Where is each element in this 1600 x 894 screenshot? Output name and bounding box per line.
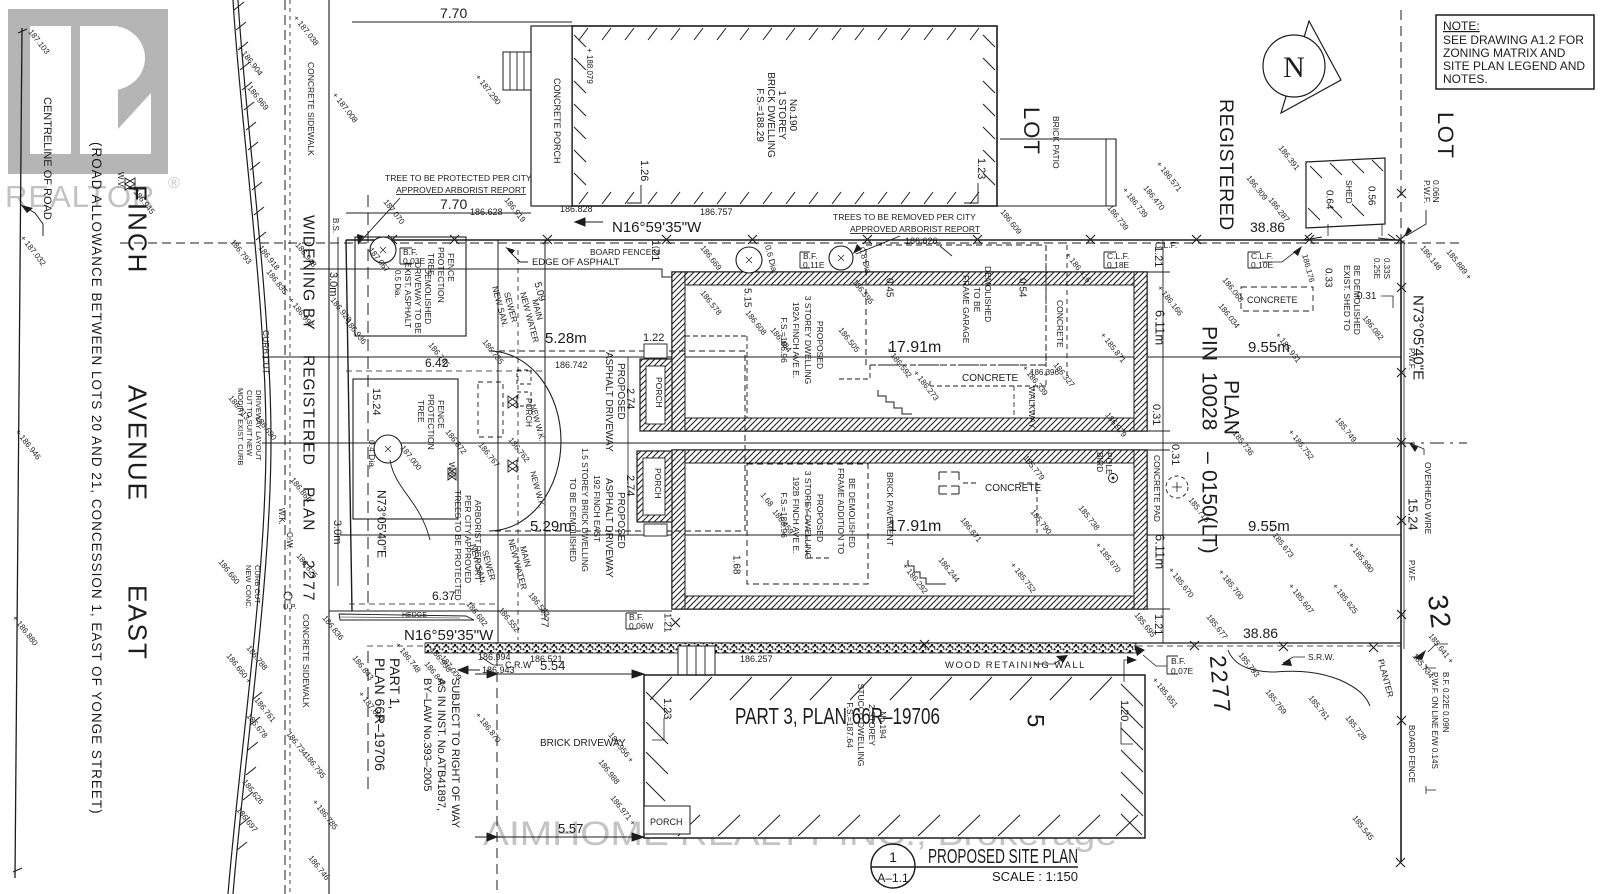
svg-text:1.21: 1.21 xyxy=(661,613,672,633)
svg-text:BY–LAW No.393–2005: BY–LAW No.393–2005 xyxy=(421,678,433,791)
svg-text:0.64: 0.64 xyxy=(1323,190,1334,210)
svg-text:PART 1,: PART 1, xyxy=(387,658,403,709)
svg-text:BOARD FENCE: BOARD FENCE xyxy=(590,247,652,257)
svg-text:BIRD: BIRD xyxy=(1095,452,1105,472)
svg-text:0.33: 0.33 xyxy=(1322,268,1333,288)
elevation labels inside B xyxy=(758,454,1122,596)
svg-text:1.5 STOREY BRICK DWELLING: 1.5 STOREY BRICK DWELLING xyxy=(580,448,590,572)
svg-text:REGISTERED: REGISTERED xyxy=(1215,99,1237,231)
svg-text:CONCRETE: CONCRETE xyxy=(1247,295,1298,305)
No.194 ticks left xyxy=(646,692,668,801)
svg-text:–: – xyxy=(1197,452,1220,464)
trees to be protected label lower xyxy=(453,490,483,601)
hedge symbol xyxy=(339,614,474,620)
svg-text:P.W.F.: P.W.F. xyxy=(1407,348,1416,370)
bay window arc xyxy=(489,351,561,531)
extension ticks right of dwellings xyxy=(1147,240,1170,643)
north side lot line N16 59'35"W xyxy=(346,239,1401,241)
svg-text:PROPOSED SITE PLAN: PROPOSED SITE PLAN xyxy=(928,846,1078,868)
svg-text:7.70: 7.70 xyxy=(440,196,467,212)
proposed asphalt driveway upper xyxy=(603,352,626,452)
porch B step box xyxy=(644,524,667,536)
svg-text:APPROVED ARBORIST REPORT: APPROVED ARBORIST REPORT xyxy=(396,185,526,195)
svg-text:W.K.: W.K. xyxy=(277,508,286,525)
steps inside A xyxy=(878,390,912,414)
svg-text:SUBJECT TO RIGHT OF WAY: SUBJECT TO RIGHT OF WAY xyxy=(449,678,461,829)
svg-text:A–1.1: A–1.1 xyxy=(877,871,909,885)
dim line 3.0m vertical xyxy=(337,237,339,586)
svg-text:15.24: 15.24 xyxy=(370,388,382,416)
svg-text:186.396: 186.396 xyxy=(1030,368,1059,377)
svg-text:FENCE: FENCE xyxy=(436,400,446,429)
svg-text:1.68: 1.68 xyxy=(730,555,741,575)
centreline label leader xyxy=(21,205,43,236)
svg-text:CUT TO SUIT NEW: CUT TO SUIT NEW xyxy=(245,390,254,457)
svg-text:APPROVED ARBORIST REPORT: APPROVED ARBORIST REPORT xyxy=(850,224,980,234)
svg-text:38.86: 38.86 xyxy=(1243,625,1278,641)
svg-text:5.28m: 5.28m xyxy=(545,330,587,347)
concrete dashed rect right xyxy=(1241,287,1313,311)
leaders to trees xyxy=(856,236,900,254)
dashed line top right vertical xyxy=(1400,10,1402,240)
svg-text:BRICK PATIO: BRICK PATIO xyxy=(1051,116,1061,169)
svg-text:®: ® xyxy=(168,175,180,192)
svg-text:PART 3, PLAN 66R–19706: PART 3, PLAN 66R–19706 xyxy=(735,703,940,729)
svg-text:2.74: 2.74 xyxy=(624,475,636,496)
svg-text:No.190: No.190 xyxy=(787,99,798,132)
new san sewer upper xyxy=(490,285,520,328)
tree circles on north line xyxy=(736,247,762,273)
NOTE box xyxy=(1436,15,1594,89)
svg-text:TREES TO BE REMOVED PER CITY: TREES TO BE REMOVED PER CITY xyxy=(833,212,976,222)
X at 675,622 xyxy=(671,618,680,627)
steps inside B xyxy=(908,560,946,584)
svg-text:3 STOREY DWELLING: 3 STOREY DWELLING xyxy=(803,471,813,560)
sidewalk west edge xyxy=(328,0,330,894)
S.R.W. curve xyxy=(1228,650,1370,706)
exist shed to be demolished xyxy=(1342,265,1362,335)
svg-text:1.20: 1.20 xyxy=(1118,700,1130,721)
centreline end ticks xyxy=(13,29,27,872)
svg-text:DEMOLISHED: DEMOLISHED xyxy=(423,268,433,324)
svg-text:FRAME GARAGE: FRAME GARAGE xyxy=(961,275,971,344)
X marks on east line xyxy=(1396,189,1406,867)
svg-text:0.54: 0.54 xyxy=(1016,278,1027,298)
svg-text:(ROAD ALLOWANCE BETWEEN LOTS 2: (ROAD ALLOWANCE BETWEEN LOTS 20 AND 21, … xyxy=(89,142,104,815)
svg-text:U.P.: U.P. xyxy=(283,602,297,611)
svg-text:PIN: PIN xyxy=(1197,326,1220,361)
fence dashed line along north lot line xyxy=(120,242,1460,244)
5.57 dim xyxy=(497,836,644,838)
svg-text:ZONING MATRIX AND: ZONING MATRIX AND xyxy=(1443,46,1566,60)
svg-text:DEMOLISHED: DEMOLISHED xyxy=(983,266,993,322)
svg-text:N: N xyxy=(1283,51,1305,84)
svg-text:CONCRETE: CONCRETE xyxy=(985,483,1041,494)
new san sewer lower xyxy=(468,543,498,586)
svg-text:CONCRETE: CONCRETE xyxy=(962,373,1018,384)
svg-text:PORCH: PORCH xyxy=(654,377,664,408)
svg-text:3.0m: 3.0m xyxy=(331,520,343,544)
svg-text:ASPHALT DRIVEWAY: ASPHALT DRIVEWAY xyxy=(603,478,614,578)
C.L.F. 0.10E box xyxy=(1248,252,1260,268)
svg-text:AVENUE: AVENUE xyxy=(123,385,153,502)
proposed asphalt driveway lower xyxy=(603,478,626,578)
road edge curve double line xyxy=(228,0,266,894)
No.190 tick hatch top xyxy=(579,28,979,40)
shed arrows xyxy=(1304,233,1396,240)
svg-text:FENCE: FENCE xyxy=(446,253,456,282)
svg-text:TO BE DEMOLISHED: TO BE DEMOLISHED xyxy=(568,478,578,562)
svg-text:5.29m: 5.29m xyxy=(530,518,572,535)
porch 192B hatched xyxy=(637,451,672,522)
svg-text:SCALE : 1:150: SCALE : 1:150 xyxy=(992,869,1078,884)
svg-text:0.25E: 0.25E xyxy=(1372,258,1381,279)
svg-text:AS IN INST. No.ATB41897,: AS IN INST. No.ATB41897, xyxy=(435,678,447,811)
arrow left 186.943 xyxy=(458,666,480,674)
brick patio vertical line xyxy=(1105,139,1107,206)
No.194 ticks bottom xyxy=(678,815,1138,836)
new water main lower xyxy=(506,538,533,591)
concrete porch of No.190 xyxy=(531,26,572,206)
south lot line 38.86 xyxy=(425,642,1401,644)
svg-text:EXIST. ASPHALT: EXIST. ASPHALT xyxy=(403,262,413,328)
svg-text:ASPHALT DRIVEWAY: ASPHALT DRIVEWAY xyxy=(603,352,614,452)
svg-text:5: 5 xyxy=(1021,714,1048,727)
svg-text:ARBORIST REPORT: ARBORIST REPORT xyxy=(473,500,483,581)
svg-text:OVERHEAD WIRE: OVERHEAD WIRE xyxy=(1423,462,1433,535)
proposed dwelling 192A outline with hatch band xyxy=(672,272,1147,431)
svg-text:1: 1 xyxy=(889,849,897,865)
main horizontal dim line 17.91m upper xyxy=(262,356,1401,358)
svg-text:TREE TO BE PROTECTED PER CITY: TREE TO BE PROTECTED PER CITY xyxy=(385,173,532,183)
svg-text:7.70: 7.70 xyxy=(440,5,467,21)
svg-text:B.S.: B.S. xyxy=(331,218,340,233)
porch 192A hatched xyxy=(640,359,672,431)
mid lot line between dwellings xyxy=(262,442,1401,444)
svg-text:CURB CUT: CURB CUT xyxy=(253,565,262,604)
dwelling 192B label block xyxy=(779,471,825,560)
concrete walk strip (dashed) right of garage xyxy=(1045,245,1047,386)
south inner line xyxy=(329,610,672,612)
svg-text:186.257: 186.257 xyxy=(740,654,773,664)
svg-text:TO BE: TO BE xyxy=(972,287,982,313)
svg-text:0.10E: 0.10E xyxy=(1251,260,1274,270)
svg-text:N16°59'35"W: N16°59'35"W xyxy=(404,627,494,644)
svg-text:0.31: 0.31 xyxy=(1357,291,1377,302)
svg-text:CONCRETE PAD: CONCRETE PAD xyxy=(1152,455,1162,522)
proposed dwelling 192B outline with hatch band xyxy=(672,450,1147,609)
B.F. 0.03E box xyxy=(400,248,412,264)
svg-text:17.91m: 17.91m xyxy=(888,518,941,535)
svg-text:0.45: 0.45 xyxy=(883,278,894,298)
svg-text:BRICK DWELLING: BRICK DWELLING xyxy=(765,72,776,158)
svg-text:N73°05'40"E: N73°05'40"E xyxy=(375,490,389,558)
svg-text:STUCCO DWELLING: STUCCO DWELLING xyxy=(856,684,866,767)
dim lines over dwellings xyxy=(685,356,1134,358)
svg-text:NEW CONC.: NEW CONC. xyxy=(244,565,253,609)
svg-text:LOT: LOT xyxy=(1433,112,1458,159)
main horizontal dim line 17.91m lower xyxy=(340,534,1401,536)
svg-text:CONCRETE SIDEWALK: CONCRETE SIDEWALK xyxy=(301,614,311,708)
dashed interior line A xyxy=(746,336,748,418)
svg-text:1.22: 1.22 xyxy=(643,332,664,344)
road edge hatch ticks bottom xyxy=(237,692,262,850)
No.190 building outline xyxy=(572,26,997,206)
svg-text:38.86: 38.86 xyxy=(1250,219,1285,235)
utility corridor verticals xyxy=(497,240,499,656)
svg-text:PROTECTION: PROTECTION xyxy=(426,394,436,450)
svg-text:1.21: 1.21 xyxy=(1152,246,1164,267)
U.P. symbol xyxy=(284,592,292,600)
porch steps No.190 xyxy=(503,52,531,90)
svg-text:NOTES.: NOTES. xyxy=(1443,72,1488,86)
north arrow xyxy=(1281,21,1341,113)
left arrow under building xyxy=(575,218,603,226)
svg-text:0.06W: 0.06W xyxy=(629,621,654,631)
svg-text:1.23: 1.23 xyxy=(975,158,987,179)
svg-text:C.W.: C.W. xyxy=(285,532,294,549)
svg-text:W.V.: W.V. xyxy=(116,172,125,188)
svg-text:REGISTERED: REGISTERED xyxy=(299,355,316,466)
svg-text:EXIST. SHED TO: EXIST. SHED TO xyxy=(1342,265,1352,331)
svg-text:5.54: 5.54 xyxy=(540,658,565,673)
svg-text:0.31: 0.31 xyxy=(1169,444,1181,465)
svg-text:PORCH: PORCH xyxy=(650,817,683,827)
svg-text:192A FINCH AVE E.: 192A FINCH AVE E. xyxy=(791,302,801,378)
C.L.F. 0.18E box right top xyxy=(1104,252,1116,268)
svg-text:BOARD FENCE: BOARD FENCE xyxy=(1407,725,1416,783)
east lot line / board fence vertical xyxy=(1400,240,1402,862)
svg-text:192 FINCH EAST: 192 FINCH EAST xyxy=(592,475,602,542)
frame garage to be demolished (dashed) xyxy=(866,245,1046,365)
svg-text:15.24: 15.24 xyxy=(1405,498,1420,531)
dwelling 192A label block xyxy=(779,296,825,385)
P.W.F. ON LINE vertical xyxy=(1430,672,1450,769)
svg-text:B.F.: B.F. xyxy=(1171,656,1186,666)
svg-text:No.194: No.194 xyxy=(878,711,888,739)
svg-text:PROPOSED: PROPOSED xyxy=(815,321,825,369)
svg-text:0150(LT): 0150(LT) xyxy=(1197,470,1220,554)
svg-text:0.4 Dia.: 0.4 Dia. xyxy=(367,440,377,469)
tree protection fence label lower xyxy=(416,394,446,450)
walkway strip dashes xyxy=(1013,386,1015,418)
svg-text:32: 32 xyxy=(1422,593,1457,632)
svg-text:P.W.F.: P.W.F. xyxy=(1422,180,1432,203)
svg-text:SITE PLAN LEGEND AND: SITE PLAN LEGEND AND xyxy=(1443,59,1585,73)
right dim line 6.11m column xyxy=(1162,240,1164,643)
svg-text:WOOD RETAINING WALL: WOOD RETAINING WALL xyxy=(945,660,1086,671)
valve symbols xyxy=(508,396,517,408)
REALTOR watermark logo box xyxy=(8,9,168,174)
wood retaining wall stipple band xyxy=(425,643,1136,653)
edge of asphalt line xyxy=(300,269,672,277)
svg-text:+ 188.079: + 188.079 xyxy=(585,48,594,84)
svg-text:2 STOREY: 2 STOREY xyxy=(867,704,877,746)
svg-text:CONCRETE PORCH: CONCRETE PORCH xyxy=(552,78,562,164)
No.194 dwelling xyxy=(644,675,1145,838)
elevation labels inside A xyxy=(698,278,1128,440)
svg-text:6.11m: 6.11m xyxy=(1152,534,1167,569)
svg-text:TREES TO BE PROTECTED: TREES TO BE PROTECTED xyxy=(453,490,463,601)
svg-text:10028: 10028 xyxy=(1197,372,1220,430)
svg-text:1 STOREY: 1 STOREY xyxy=(776,90,787,140)
utility dashed line xyxy=(517,250,519,640)
widening dashed line xyxy=(367,195,369,610)
svg-text:186.828: 186.828 xyxy=(560,204,593,214)
road edge hatch ticks top xyxy=(234,2,266,240)
SUBJECT TO RIGHT OF WAY vertical xyxy=(421,678,461,829)
wood retaining wall outline below xyxy=(455,655,1136,657)
leader from tree to label xyxy=(390,460,430,540)
svg-text:6.11m: 6.11m xyxy=(1152,310,1167,345)
X marks on south line xyxy=(920,640,1378,652)
overhead wire dash-dot right of mid line xyxy=(1401,442,1467,444)
gutter dashed lines xyxy=(284,0,286,894)
svg-text:HEDGE: HEDGE xyxy=(402,612,427,619)
new water main upper xyxy=(518,291,545,344)
svg-text:192B FINCH AVE E.: 192B FINCH AVE E. xyxy=(791,477,801,554)
concrete pad B dashed with double squares xyxy=(939,472,959,494)
dashed circle concrete pad xyxy=(1166,476,1188,498)
svg-text:SHED: SHED xyxy=(1344,180,1354,204)
svg-text:0.11E: 0.11E xyxy=(803,260,825,270)
tree circle lower xyxy=(374,435,402,463)
svg-text:PROPOSED: PROPOSED xyxy=(615,492,626,549)
svg-text:CONCRETE SIDEWALK: CONCRETE SIDEWALK xyxy=(306,62,316,156)
B.F. 0.06W left box xyxy=(626,613,637,629)
centreline of road xyxy=(15,28,22,878)
svg-text:186.757: 186.757 xyxy=(700,207,733,217)
tree circle at front corner xyxy=(370,237,396,263)
X fence marks on north line xyxy=(388,235,1405,244)
svg-text:F.S.=187.64: F.S.=187.64 xyxy=(845,702,855,748)
svg-text:5.57: 5.57 xyxy=(558,821,583,836)
5.54 dim xyxy=(497,673,644,675)
No.190 tick hatch right xyxy=(983,35,995,185)
svg-text:1.26: 1.26 xyxy=(638,160,650,181)
svg-text:BE DEMOLISHED: BE DEMOLISHED xyxy=(847,478,857,548)
small porch dashes of old house xyxy=(478,382,503,437)
scattered elevations right xyxy=(1166,416,1375,616)
svg-text:186.628: 186.628 xyxy=(470,207,503,217)
svg-text:TREE: TREE xyxy=(416,400,426,423)
B.F. 0.07E box bottom right xyxy=(1167,656,1178,674)
svg-text:0.18E: 0.18E xyxy=(1107,260,1130,270)
7.70 top dim xyxy=(352,21,572,23)
svg-text:1.21: 1.21 xyxy=(649,240,661,261)
svg-text:0.33S: 0.33S xyxy=(1382,258,1391,279)
No.194 label block xyxy=(845,684,888,767)
svg-text:PROTECTION: PROTECTION xyxy=(436,247,446,303)
brick patio outline xyxy=(997,139,1116,206)
svg-text:POLE: POLE xyxy=(1104,452,1114,475)
shed top right xyxy=(1306,158,1385,228)
svg-text:0.06N: 0.06N xyxy=(1431,180,1441,203)
svg-text:DRIVEWAY TO BE: DRIVEWAY TO BE xyxy=(413,262,423,334)
svg-text:5.15: 5.15 xyxy=(741,288,752,308)
frame addition dashed rect in B xyxy=(747,464,868,584)
svg-text:LOT: LOT xyxy=(1019,107,1044,156)
svg-text:CURB CUT: CURB CUT xyxy=(261,330,271,374)
svg-text:CONCRETE: CONCRETE xyxy=(1055,300,1065,348)
svg-text:FRAME ADDITION TO: FRAME ADDITION TO xyxy=(836,468,846,555)
No.194 ticks top xyxy=(650,677,1112,700)
svg-text:EAST: EAST xyxy=(123,585,153,661)
existing house label xyxy=(568,448,602,572)
No.190 tick hatch bottom xyxy=(579,192,979,204)
svg-text:F.S.=188.29: F.S.=188.29 xyxy=(754,88,765,142)
title block xyxy=(871,844,915,888)
7.70 lower dim xyxy=(346,212,531,214)
porch A step box xyxy=(644,344,667,358)
svg-text:0.5 Dia.: 0.5 Dia. xyxy=(393,270,402,298)
svg-text:3 STOREY DWELLING: 3 STOREY DWELLING xyxy=(803,296,813,385)
svg-text:P.W.F. ON LINE E/W 0.14S: P.W.F. ON LINE E/W 0.14S xyxy=(1430,672,1439,769)
svg-text:0.31: 0.31 xyxy=(1150,404,1162,425)
svg-text:PORCH: PORCH xyxy=(524,398,533,427)
svg-text:NOTE:: NOTE: xyxy=(1443,19,1480,33)
svg-text:SEE DRAWING A1.2 FOR: SEE DRAWING A1.2 FOR xyxy=(1443,33,1584,47)
svg-text:2.74: 2.74 xyxy=(624,388,636,409)
svg-text:B.F. 0.22E 0.09N: B.F. 0.22E 0.09N xyxy=(1441,672,1450,733)
svg-text:3.0m: 3.0m xyxy=(327,272,339,296)
svg-text:P.W.F.: P.W.F. xyxy=(1407,560,1416,582)
svg-text:S.R.W.: S.R.W. xyxy=(1308,652,1334,662)
svg-text:PER CITY APPROVED: PER CITY APPROVED xyxy=(463,495,473,583)
B.F. 0.11E box xyxy=(800,252,810,268)
bottom-left elevation labels xyxy=(224,644,385,883)
svg-text:6.37: 6.37 xyxy=(432,589,456,603)
svg-text:0.56: 0.56 xyxy=(1365,186,1376,206)
porch No.194 xyxy=(644,806,690,834)
svg-text:0.07E: 0.07E xyxy=(1171,666,1194,676)
tree protection fence upper rect xyxy=(355,237,466,336)
svg-text:CENTRELINE OF ROAD: CENTRELINE OF ROAD xyxy=(41,97,53,220)
svg-text:N16°59'35"W: N16°59'35"W xyxy=(612,219,702,236)
svg-text:186.742: 186.742 xyxy=(555,360,588,370)
svg-text:C.R.W: C.R.W xyxy=(505,660,532,670)
svg-text:WALKWAY: WALKWAY xyxy=(1027,386,1037,429)
186.956 186.988 186.971 labels xyxy=(596,731,637,828)
No.190 tick hatch left xyxy=(574,35,586,185)
S.R.W. elevations xyxy=(1236,651,1368,743)
svg-text:PORCH: PORCH xyxy=(653,468,663,499)
steps above No.194 xyxy=(678,646,715,675)
0.25E 0.33S xyxy=(1372,258,1391,279)
svg-text:1.23: 1.23 xyxy=(661,698,673,719)
concrete pad A dashed outline xyxy=(838,365,1046,386)
tree protection fence lower rect xyxy=(353,379,458,519)
front lot line xyxy=(346,240,352,611)
svg-text:2277: 2277 xyxy=(1205,654,1236,715)
bird pole xyxy=(1095,452,1114,475)
dashed outline existing 192 house xyxy=(489,351,745,531)
No.194 ticks right xyxy=(1121,684,1143,835)
